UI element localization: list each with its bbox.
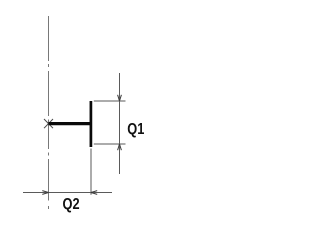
- extension line bottom (for Q1): [94, 143, 126, 145]
- dimension line Q1 (vertical): [119, 73, 121, 174]
- extension line right (for Q2, below body): [90, 149, 92, 195]
- arrowhead Q1 top (points down at y=101): [118, 95, 122, 101]
- component body (thick vertical bar): [90, 101, 93, 147]
- arrowhead Q1 bottom (points up at y=144): [118, 144, 122, 150]
- arrowhead Q2 right (points left at x=91): [91, 191, 97, 195]
- centerline (vertical dash-dot axis): [48, 16, 50, 209]
- arrowhead Q2 left (points right at x=48.5): [42, 191, 48, 195]
- dimension line Q2 (horizontal): [23, 192, 112, 194]
- svg-text:Q1: Q1: [127, 121, 144, 139]
- extension line top (for Q1): [94, 100, 126, 102]
- node marker X at lead origin: [44, 119, 53, 128]
- component lead (thick horizontal bar): [49, 122, 93, 125]
- svg-text:Q2: Q2: [63, 196, 80, 214]
